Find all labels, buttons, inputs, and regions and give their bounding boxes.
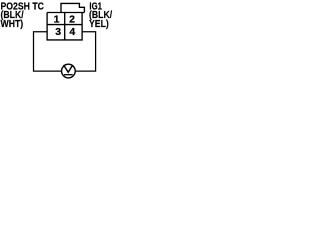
svg-text:WHT): WHT) xyxy=(1,18,24,29)
label PO2SHTC (BLK/WHT) xyxy=(1,1,45,29)
wire from terminal 3 to voltmeter xyxy=(34,32,62,71)
svg-text:4: 4 xyxy=(69,26,75,38)
voltmeter circle xyxy=(62,64,76,78)
svg-text:1: 1 xyxy=(54,13,60,25)
connector housing lock tab xyxy=(61,3,84,12)
voltmeter V symbol xyxy=(64,65,73,72)
svg-text:YEL): YEL) xyxy=(89,18,109,29)
svg-text:3: 3 xyxy=(55,26,61,38)
pin numbers xyxy=(54,13,76,38)
svg-text:2: 2 xyxy=(69,13,75,25)
wire from terminal 4 to voltmeter xyxy=(75,32,95,71)
connector terminal grid xyxy=(47,13,84,40)
label IG1 (BLK/YEL) xyxy=(89,0,113,29)
voltmeter underline xyxy=(64,74,73,76)
